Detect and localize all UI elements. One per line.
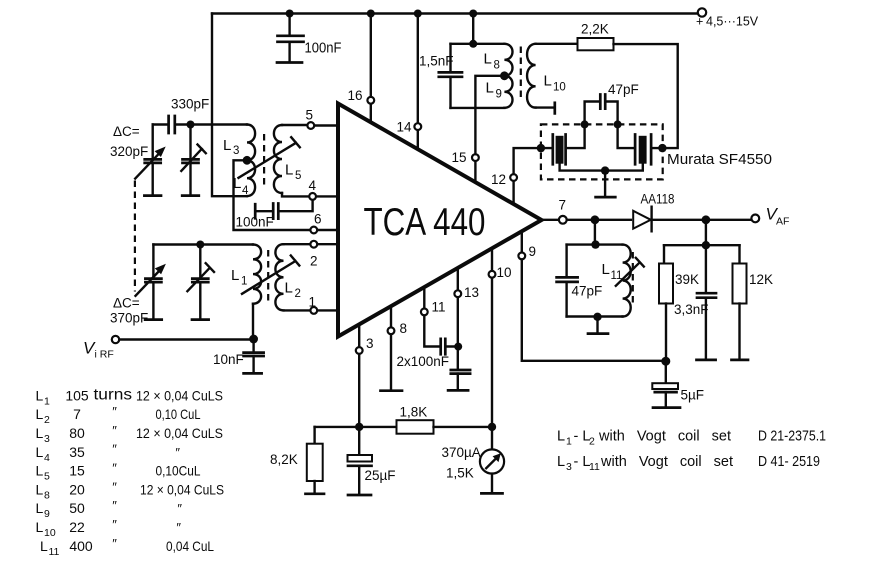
svg-text:ΔC=: ΔC= bbox=[113, 124, 140, 139]
op-amp style triangle: IC TCA 440 bbox=[338, 104, 542, 337]
wire: L10 bottom open stub bbox=[536, 106, 555, 108]
svg-text:15: 15 bbox=[452, 150, 467, 165]
svg-text:L: L bbox=[484, 51, 492, 68]
pin 15 bbox=[474, 161, 476, 182]
inductor L8/L9 (IF osc coil, tapped) bbox=[504, 44, 512, 108]
inductor L1 (input coil primary) bbox=[253, 245, 261, 304]
svg-text:D 21-2375.1: D 21-2375.1 bbox=[758, 429, 826, 445]
wire: tap to pin 15 bbox=[475, 76, 504, 154]
svg-text:i RF: i RF bbox=[95, 349, 114, 361]
inductor L3/L4 (osc coil primary, tapped) bbox=[247, 125, 255, 197]
svg-text:4: 4 bbox=[309, 178, 317, 193]
node: filter ground center bbox=[601, 166, 609, 174]
trimmer capacitor (RF input) bbox=[189, 125, 191, 195]
svg-text:330pF: 330pF bbox=[171, 97, 209, 112]
svg-text:2: 2 bbox=[589, 436, 595, 448]
svg-text:″: ″ bbox=[112, 479, 117, 494]
resistor 39K bbox=[663, 245, 665, 263]
svg-text:7: 7 bbox=[559, 198, 567, 213]
diode AA118 bbox=[567, 219, 631, 221]
node: detector out bbox=[591, 215, 600, 224]
svg-text:1: 1 bbox=[566, 436, 572, 448]
svg-text:14: 14 bbox=[397, 120, 413, 135]
pin 14 bbox=[417, 130, 419, 149]
node: 2x100nF junction on pin13 line bbox=[454, 343, 462, 351]
wire: L2 top to pin 2 bbox=[284, 243, 311, 245]
svg-text:5: 5 bbox=[306, 108, 314, 123]
inductor L10 bbox=[527, 44, 536, 108]
svg-text:″: ″ bbox=[112, 461, 117, 476]
svg-text:12: 12 bbox=[491, 172, 506, 187]
svg-text:″: ″ bbox=[175, 445, 180, 460]
svg-text:- L: - L bbox=[574, 429, 591, 445]
svg-text:- L: - L bbox=[574, 454, 591, 470]
svg-text:12 × 0,04 CuLS: 12 × 0,04 CuLS bbox=[136, 425, 223, 441]
pin 5 bbox=[314, 124, 337, 126]
svg-text:9: 9 bbox=[496, 89, 502, 101]
svg-text:0,10 CuL: 0,10 CuL bbox=[156, 406, 201, 422]
svg-text:10: 10 bbox=[553, 82, 566, 94]
svg-text:TCA 440: TCA 440 bbox=[364, 201, 486, 244]
core: L8/L10 dashed core bbox=[520, 47, 522, 102]
svg-text:4,5···15V: 4,5···15V bbox=[706, 15, 759, 29]
wire: drop from rail to L8 loop bbox=[472, 14, 474, 44]
svg-text:L: L bbox=[557, 429, 565, 445]
svg-text:L: L bbox=[36, 481, 44, 497]
svg-text:0,04 CuL: 0,04 CuL bbox=[166, 538, 214, 554]
svg-text:25µF: 25µF bbox=[365, 468, 396, 483]
meter 370uA / 1,5K bbox=[480, 449, 504, 473]
svg-text:100nF: 100nF bbox=[305, 41, 342, 57]
node: rail junction dots bbox=[286, 10, 294, 18]
wire: pin16 drop from rail bbox=[370, 14, 372, 97]
wire: gang dashed link bbox=[134, 181, 136, 292]
capacitor 3,3nF bbox=[705, 245, 707, 292]
svg-text:8: 8 bbox=[44, 489, 50, 501]
capacitor 100nF (pin 4 decoupling) bbox=[255, 200, 312, 211]
inductor L11 bbox=[623, 245, 631, 317]
svg-text:AF: AF bbox=[776, 216, 789, 228]
node: 39K bottom / AGC bus bbox=[661, 357, 670, 366]
svg-text:L: L bbox=[36, 387, 44, 403]
node: bridge left bbox=[581, 120, 589, 128]
wire: bus 1.8K to meter node bbox=[434, 426, 493, 428]
capacitor 1,5nF bbox=[449, 44, 451, 72]
svg-text:22: 22 bbox=[69, 519, 85, 535]
svg-text:L: L bbox=[36, 444, 44, 460]
adjust arrow through L1/L2 bbox=[242, 256, 299, 294]
wire: pin14 drop from rail bbox=[417, 14, 419, 124]
svg-text:turns: turns bbox=[94, 387, 133, 404]
svg-text:370pF: 370pF bbox=[110, 311, 148, 326]
svg-text:100nF: 100nF bbox=[236, 215, 274, 230]
svg-text:Murata SF4550: Murata SF4550 bbox=[667, 152, 772, 168]
core: L11 dashed core bbox=[632, 252, 634, 306]
svg-text:D 41- 2519: D 41- 2519 bbox=[758, 454, 820, 470]
svg-text:370µA: 370µA bbox=[442, 445, 481, 460]
wire: L1 bottom to input node bbox=[252, 304, 254, 336]
node: tank top bbox=[591, 240, 599, 248]
svg-text:2: 2 bbox=[310, 254, 318, 269]
svg-text:″: ″ bbox=[112, 517, 117, 532]
pin 10 bbox=[491, 249, 493, 271]
svg-text:35: 35 bbox=[69, 444, 85, 460]
pin 13 bbox=[457, 269, 459, 291]
svg-text:ΔC=: ΔC= bbox=[113, 296, 140, 311]
svg-text:L: L bbox=[285, 162, 293, 179]
pin 1 bbox=[317, 309, 337, 311]
svg-text:39K: 39K bbox=[675, 272, 699, 287]
svg-text:3: 3 bbox=[366, 336, 374, 351]
svg-text:+: + bbox=[696, 15, 703, 29]
svg-text:L: L bbox=[486, 80, 494, 97]
svg-text:″: ″ bbox=[112, 498, 117, 513]
wire: supply branch down-left to L4 bottom bbox=[212, 14, 247, 197]
svg-text:4: 4 bbox=[44, 452, 50, 464]
capacitor 2x100nF leg a (pin11) bbox=[424, 316, 454, 347]
resistor 12K bbox=[738, 245, 740, 263]
svg-text:0,10CuL: 0,10CuL bbox=[156, 463, 201, 479]
wire: bus to 8.2K corner bbox=[315, 426, 397, 428]
wire: tap to pin 6 bbox=[234, 160, 311, 230]
svg-text:2x100nF: 2x100nF bbox=[397, 354, 450, 369]
svg-text:3: 3 bbox=[233, 145, 239, 157]
node: L8/L9 tap bbox=[500, 71, 509, 80]
node: tank bottom bbox=[593, 313, 601, 321]
wire: divider top rail bbox=[664, 244, 740, 246]
wire: pin 10 down to meter bbox=[491, 278, 493, 449]
node: supply drop on loop bbox=[469, 40, 477, 48]
svg-text:3,3nF: 3,3nF bbox=[674, 302, 709, 317]
svg-text:9: 9 bbox=[529, 244, 537, 259]
resistor 2,2K bbox=[578, 38, 614, 50]
svg-text:L: L bbox=[602, 261, 610, 278]
wire: detector node down to IF tank bbox=[594, 220, 596, 245]
adjust arrow through L4/L5 bbox=[239, 137, 300, 178]
svg-text:L: L bbox=[36, 406, 44, 422]
svg-text:3: 3 bbox=[44, 433, 50, 445]
resonator 1 bbox=[541, 128, 585, 148]
svg-text:1,5nF: 1,5nF bbox=[419, 54, 454, 69]
wire: tank bottom rail bbox=[567, 315, 623, 317]
svg-text:5: 5 bbox=[44, 471, 50, 483]
capacitor 5uF electrolytic bbox=[665, 361, 667, 383]
svg-text:″: ″ bbox=[112, 442, 117, 457]
svg-text:″: ″ bbox=[176, 520, 181, 535]
inductor L2 (input coil secondary) bbox=[275, 244, 283, 310]
svg-text:3: 3 bbox=[566, 461, 572, 473]
svg-text:13: 13 bbox=[464, 285, 479, 300]
svg-text:L: L bbox=[223, 137, 231, 154]
capacitor 100nF (supply decoupling) bbox=[288, 14, 290, 35]
svg-text:″: ″ bbox=[112, 536, 117, 551]
svg-text:″: ″ bbox=[112, 423, 117, 438]
svg-text:9: 9 bbox=[44, 508, 50, 520]
trimmer capacitor (mixer input) bbox=[199, 245, 201, 319]
terminal: VAF output bbox=[751, 215, 759, 223]
pin 8 stub to chassis bar bbox=[390, 334, 392, 389]
capacitor 330pF bbox=[153, 123, 247, 125]
wire: pin 9 down and right to AF bus bbox=[522, 260, 662, 361]
node: bus/pin3/25uF junction bbox=[355, 423, 363, 431]
svg-text:12K: 12K bbox=[749, 272, 773, 287]
pin 3 bbox=[358, 325, 360, 347]
wire: resonator commons to ground bbox=[560, 164, 643, 170]
ground (filter) bbox=[604, 171, 606, 196]
svg-text:8: 8 bbox=[494, 60, 500, 72]
node: L3/L4 tap bbox=[243, 156, 252, 165]
pin 6 bbox=[317, 229, 337, 231]
wire: L2 bottom to pin 1 bbox=[284, 309, 311, 311]
wire: RF input line bbox=[119, 338, 250, 340]
pin 8 bbox=[390, 306, 392, 327]
svg-text:47pF: 47pF bbox=[608, 82, 639, 97]
svg-text:320pF: 320pF bbox=[110, 144, 148, 159]
svg-text:1: 1 bbox=[309, 295, 317, 310]
capacitor 2x100nF leg b (pin13) bbox=[451, 370, 470, 374]
svg-text:10: 10 bbox=[497, 265, 512, 280]
node: 330pF / trimmer junction bbox=[187, 121, 195, 129]
wire: L5 top to pin 5 bbox=[282, 124, 307, 126]
capacitor 47pF (IF tank) bbox=[565, 245, 567, 277]
svg-text:4: 4 bbox=[242, 185, 249, 197]
node: meter/pin10 junction bbox=[488, 423, 496, 431]
wire: 2.2K right down to filter output bbox=[614, 44, 678, 148]
svg-text:11: 11 bbox=[432, 300, 446, 315]
wire: pin 13 down bbox=[457, 297, 459, 369]
svg-text:12 × 0,04 CuLS: 12 × 0,04 CuLS bbox=[140, 481, 224, 497]
pin 9 bbox=[521, 231, 523, 252]
svg-text:L: L bbox=[40, 538, 48, 554]
svg-text:1: 1 bbox=[44, 395, 50, 407]
svg-text:400: 400 bbox=[69, 538, 93, 554]
node: filter output bbox=[658, 144, 666, 152]
pin 2 bbox=[317, 243, 337, 245]
resistor 1,8K bbox=[397, 420, 434, 434]
svg-text:15: 15 bbox=[69, 463, 85, 479]
node: tank / trimmer junction bbox=[196, 241, 204, 249]
resistor 8,2K bbox=[313, 427, 315, 444]
wire: L8 loop top bbox=[451, 43, 505, 45]
svg-text:L: L bbox=[36, 425, 44, 441]
pin 7 bbox=[542, 219, 559, 221]
svg-text:1,8K: 1,8K bbox=[400, 405, 428, 420]
filter: Murata SF4550 dashed box bbox=[541, 124, 663, 179]
pin 4 bbox=[316, 195, 337, 197]
wire: L9 bottom loop bbox=[451, 107, 505, 109]
svg-text:″: ″ bbox=[177, 501, 182, 516]
capacitor 25uF electrolytic bbox=[358, 427, 360, 455]
svg-text:7: 7 bbox=[73, 406, 81, 422]
svg-text:with Vogt coil set: with Vogt coil set bbox=[600, 454, 733, 470]
resonator 2 bbox=[618, 128, 663, 148]
svg-text:L: L bbox=[231, 267, 239, 284]
svg-text:L: L bbox=[544, 73, 552, 90]
svg-text:10nF: 10nF bbox=[213, 352, 244, 367]
pin 16 bbox=[370, 104, 372, 122]
svg-text:L: L bbox=[36, 500, 44, 516]
svg-text:8,2K: 8,2K bbox=[270, 452, 298, 467]
svg-text:80: 80 bbox=[69, 425, 85, 441]
svg-text:L: L bbox=[36, 463, 44, 479]
wire: pin 3 down to bus bbox=[358, 354, 360, 423]
core: L3/L5 dashed core bbox=[263, 134, 265, 188]
svg-text:″: ″ bbox=[112, 404, 117, 419]
wire: input tank top rail bbox=[153, 243, 253, 245]
terminal: Vi RF input bbox=[112, 336, 119, 343]
node: 10nF junction bbox=[249, 335, 258, 344]
wire: L10 top to 2.2K bbox=[536, 43, 578, 45]
svg-text:1,5K: 1,5K bbox=[446, 466, 474, 481]
svg-text:L: L bbox=[285, 280, 293, 297]
terminal: +4,5...15V supply bbox=[698, 8, 706, 16]
svg-text:5: 5 bbox=[295, 170, 301, 182]
pin 11 bbox=[423, 287, 425, 308]
node: AF node bbox=[702, 215, 711, 224]
variable capacitor 370pF gang section bbox=[152, 245, 154, 319]
node: bridge right bbox=[614, 120, 622, 128]
svg-text:20: 20 bbox=[69, 481, 85, 497]
svg-text:105: 105 bbox=[65, 387, 89, 403]
svg-text:6: 6 bbox=[314, 212, 322, 227]
adjust arrow through L11 bbox=[616, 258, 644, 286]
node: filter input bbox=[537, 144, 545, 152]
wire: tank top rail bbox=[567, 243, 623, 245]
svg-text:1: 1 bbox=[241, 276, 247, 288]
capacitor 47pF (filter bridge) bbox=[585, 102, 618, 125]
pin 12 bbox=[512, 181, 514, 204]
svg-text:16: 16 bbox=[348, 88, 363, 103]
wire: pin 12 up to filter input bbox=[514, 148, 538, 174]
svg-text:L: L bbox=[557, 454, 565, 470]
capacitor 10nF bbox=[252, 339, 254, 352]
svg-text:47pF: 47pF bbox=[572, 284, 603, 299]
svg-text:2: 2 bbox=[295, 288, 301, 300]
svg-text:5µF: 5µF bbox=[681, 388, 705, 403]
svg-text:12 × 0,04 CuLS: 12 × 0,04 CuLS bbox=[136, 387, 223, 403]
variable capacitor 320pF gang section bbox=[151, 125, 153, 195]
svg-text:11: 11 bbox=[589, 461, 600, 473]
node: divider top bbox=[702, 241, 710, 249]
svg-text:2,2K: 2,2K bbox=[581, 22, 609, 37]
svg-text:L: L bbox=[36, 519, 44, 535]
svg-text:11: 11 bbox=[49, 546, 60, 558]
svg-text:with Vogt coil set: with Vogt coil set bbox=[598, 429, 731, 445]
svg-text:50: 50 bbox=[69, 500, 85, 516]
ground (IF tank) bbox=[596, 317, 598, 333]
svg-text:2: 2 bbox=[44, 414, 50, 426]
core: L1/L2 dashed core bbox=[267, 250, 269, 305]
wire: +supply top rail bbox=[212, 12, 697, 14]
wire: L5 bottom to pin 4 bbox=[282, 193, 309, 196]
table: winding data bbox=[36, 387, 225, 558]
wire: AF node down to divider bbox=[705, 220, 707, 245]
svg-text:AA118: AA118 bbox=[641, 192, 675, 207]
inductor L5 (osc coil secondary) bbox=[274, 125, 282, 193]
svg-text:8: 8 bbox=[400, 321, 408, 336]
